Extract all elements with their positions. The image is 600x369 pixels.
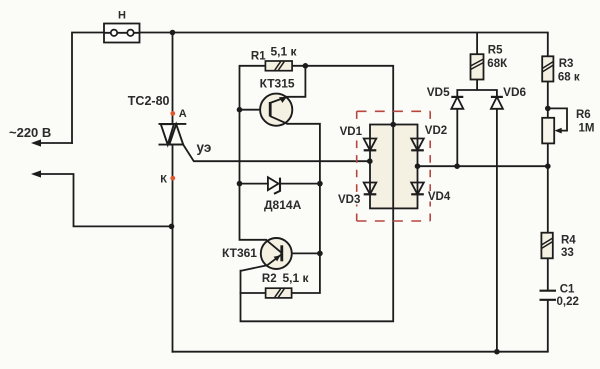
junction zener right <box>317 181 323 187</box>
label R5 <box>488 44 503 56</box>
label Д814А <box>264 198 302 212</box>
node A dot <box>170 111 175 116</box>
bridge body <box>370 125 418 209</box>
wire KT361 lower to R2 rail <box>241 208 394 321</box>
svg-text:VD4: VD4 <box>428 191 451 203</box>
svg-text:~220 В: ~220 В <box>9 125 51 140</box>
node K dot <box>170 176 175 181</box>
junction KT361 base <box>317 251 323 257</box>
resistor R2 <box>266 288 292 298</box>
wire R1 left rail <box>240 66 267 240</box>
label R6 value 1M <box>579 122 595 134</box>
junction top <box>170 30 176 36</box>
wire left terminal 1 arrow <box>31 139 72 146</box>
label VD6 <box>503 85 526 99</box>
svg-text:ТС2-80: ТС2-80 <box>128 94 170 108</box>
label C1 <box>560 284 575 296</box>
transistor KT361 <box>261 238 292 269</box>
svg-text:КТ361: КТ361 <box>222 246 257 260</box>
zener diode Д814А <box>268 177 280 194</box>
svg-text:А: А <box>179 108 187 120</box>
label R3 value 68 к <box>558 71 580 83</box>
junction zener left <box>237 181 243 187</box>
wire zener left lead <box>240 183 268 185</box>
svg-text:R1: R1 <box>251 50 266 62</box>
label VD4 <box>427 191 451 203</box>
junction VD6 bottom <box>494 349 500 355</box>
label A <box>179 108 187 120</box>
diode VD5 <box>451 97 463 166</box>
label R5 value 68К <box>487 58 508 70</box>
wire KT315 base <box>240 109 271 111</box>
resistor R5 <box>471 33 484 80</box>
wire top main <box>72 33 548 144</box>
junction bridge right <box>415 163 421 169</box>
wire KT315 collector <box>287 66 305 97</box>
wire VD5 VD6 top bus <box>457 80 497 97</box>
junction R1 right <box>303 63 309 69</box>
label R2 value 5,1 к <box>283 271 310 285</box>
svg-text:R6: R6 <box>576 109 591 121</box>
label R3 <box>559 58 574 70</box>
junction R6 bottom <box>545 163 551 169</box>
potentiometer R6 <box>542 108 567 166</box>
svg-text:VD1: VD1 <box>340 126 363 138</box>
svg-text:5,1 к: 5,1 к <box>283 271 310 285</box>
resistor R1 <box>265 61 292 71</box>
svg-text:1М: 1М <box>579 122 595 134</box>
svg-text:C1: C1 <box>560 284 575 296</box>
wire bridge out right <box>418 165 548 167</box>
diode VD1 <box>364 139 377 151</box>
label KT315 <box>260 77 295 91</box>
resistor R3 <box>542 33 553 109</box>
label K <box>160 173 167 185</box>
svg-text:VD6: VD6 <box>503 85 526 99</box>
label VD2 <box>424 125 448 137</box>
diode VD6 <box>491 97 503 352</box>
svg-text:R2: R2 <box>262 273 277 285</box>
resistor R4 <box>541 166 552 290</box>
label R6 <box>576 109 591 121</box>
svg-text:VD2: VD2 <box>425 125 447 137</box>
label TC2-80 <box>128 94 170 108</box>
svg-text:Н: Н <box>118 9 126 21</box>
wire R2 left lead <box>241 292 266 294</box>
junction VD5 bottom <box>454 163 460 169</box>
svg-text:КТ315: КТ315 <box>260 77 295 91</box>
svg-text:R5: R5 <box>488 44 503 56</box>
junction KT315 base <box>237 107 243 113</box>
label R2 <box>262 273 277 285</box>
label KT361 <box>222 246 257 260</box>
wire left terminal 2 <box>31 170 172 226</box>
wire gate УЭ <box>183 145 370 162</box>
svg-text:0,22: 0,22 <box>557 296 579 308</box>
label VD5 <box>427 85 450 99</box>
wire triac anode vertical <box>172 33 174 124</box>
capacitor C1 <box>540 291 557 352</box>
label VD1 <box>339 126 363 138</box>
svg-text:R4: R4 <box>561 234 576 246</box>
triac ТС2-80 <box>159 124 187 145</box>
label VD3 <box>337 194 361 206</box>
svg-text:уэ: уэ <box>197 140 212 155</box>
wire R1 right to bridge <box>292 66 393 125</box>
svg-text:VD3: VD3 <box>338 194 360 206</box>
wire triac cathode vertical <box>172 145 174 352</box>
svg-text:5,1 к: 5,1 к <box>271 45 298 59</box>
wire bottom main <box>173 351 548 353</box>
label ~220 В <box>9 125 51 140</box>
junction bridge left <box>367 158 373 164</box>
junction R6 top <box>545 106 551 112</box>
label УЭ <box>197 140 212 155</box>
svg-text:68К: 68К <box>487 58 508 70</box>
label R1 <box>251 50 266 62</box>
label C1 value 0,22 <box>557 296 579 308</box>
svg-text:68 к: 68 к <box>558 71 580 83</box>
label R4 <box>561 234 576 246</box>
svg-text:33: 33 <box>561 247 574 259</box>
wire KT361 base <box>282 252 320 254</box>
svg-text:VD5: VD5 <box>427 85 450 99</box>
diode VD2 <box>411 139 424 151</box>
junction bridge top <box>390 122 396 128</box>
diode VD4 <box>411 183 424 195</box>
fuse H box <box>104 24 140 43</box>
transistor KT315 <box>260 94 292 126</box>
label H <box>118 9 126 21</box>
label R4 value 33 <box>561 247 574 259</box>
wire bridge center column <box>392 125 394 209</box>
svg-text:К: К <box>160 173 167 185</box>
optocoupler dashed box <box>357 111 431 221</box>
svg-text:R3: R3 <box>559 58 574 70</box>
wire KT315 emitter to rail <box>287 124 320 293</box>
wire zener right lead <box>280 183 320 185</box>
diode VD3 <box>364 183 377 195</box>
label R1 value 5,1 к <box>271 45 298 59</box>
junction left bottom <box>169 224 175 230</box>
svg-text:Д814А: Д814А <box>264 198 302 212</box>
